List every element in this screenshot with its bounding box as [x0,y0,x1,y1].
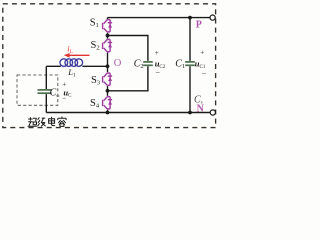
wire: C1 branch upper [189,18,191,61]
text 超级电容 (hand-drawn strokes) [28,117,67,127]
switch S3 [103,73,113,85]
wire: flying-cap upper link [108,36,148,61]
char 级 [38,117,46,126]
junction dot S3-S4 [106,89,110,93]
current arrow iL [64,53,90,58]
char 电 [49,117,56,126]
node O dot [106,64,110,68]
wire: flying-cap lower link [108,66,148,91]
svg-text:P: P [196,19,202,30]
char 容 [58,117,66,127]
wire: supercap branch vertical bottom [45,94,47,112]
wire: switch-leg segments [107,18,109,113]
wire: C1 branch lower [189,66,191,112]
svg-text:O: O [114,58,122,69]
bottom rail N [46,112,210,114]
wire: supercap branch vertical top [45,66,47,89]
svg-text:+: + [155,49,159,57]
switch S1 [103,20,113,32]
junction dot top rail / C1 [188,16,192,20]
svg-text:+: + [200,49,204,57]
capacitor C1 plates [185,62,195,65]
wire: inductor to node O [82,65,107,67]
svg-text:N: N [197,103,205,114]
junction dot bottom rail / C1 [188,111,192,115]
junction dot S1-S2 [106,34,110,38]
capacitor Csc plates [38,90,52,93]
outer dashed border [3,4,216,128]
top rail P [108,17,211,19]
supercapacitor dashed box [17,75,58,105]
terminal N [210,110,215,115]
junction dot S4-bottom rail [106,111,110,115]
wire: horizontal to inductor [46,65,61,67]
svg-text:−: − [156,69,161,78]
capacitor C2 plates [143,62,153,65]
svg-text:−: − [62,93,66,102]
switch S2 [103,40,113,52]
inductor L1 coil [60,59,83,67]
switch S4 [103,97,113,109]
char 超 [28,117,37,126]
svg-text:−: − [202,69,207,78]
terminal P [210,15,215,20]
